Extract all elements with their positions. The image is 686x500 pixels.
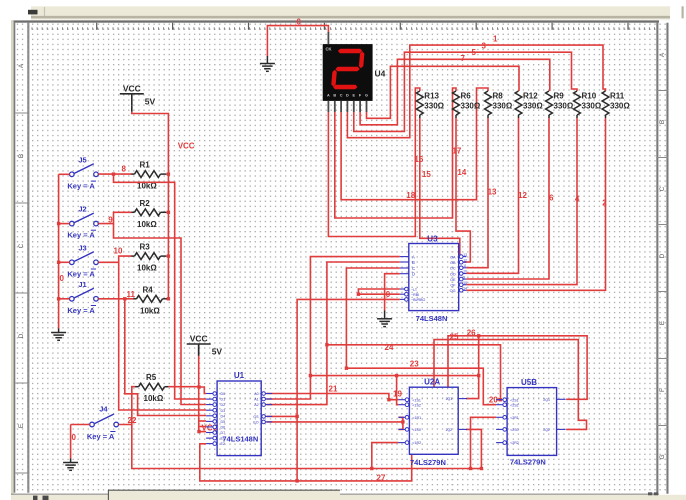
wire to J4 left: [71, 424, 90, 426]
wire net 11 J1 to R4: [99, 298, 134, 300]
svg-text:1Q2: 1Q2: [445, 428, 452, 432]
svg-text:R12: R12: [523, 92, 538, 101]
svg-text:D: D: [412, 272, 415, 277]
wire net 25 2Q2 loop: [434, 340, 587, 430]
svg-text:4: 4: [575, 195, 580, 204]
svg-text:6: 6: [549, 194, 554, 203]
svg-text:5: 5: [472, 48, 477, 57]
svg-text:U2A: U2A: [424, 377, 440, 386]
7-segment display U4: [323, 44, 373, 112]
svg-text:D3: D3: [221, 409, 226, 413]
wire segment D net 1 to R11: [347, 45, 605, 138]
svg-text:Key = A: Key = A: [87, 432, 115, 441]
svg-text:D: D: [18, 333, 25, 338]
svg-text:A2: A2: [254, 403, 258, 407]
wire net 27 U1 EI: [200, 444, 412, 481]
svg-text:74LS48N: 74LS48N: [416, 314, 448, 323]
wire switch ground rail: [58, 174, 60, 328]
svg-text:9: 9: [108, 216, 113, 225]
svg-text:13: 13: [488, 188, 497, 197]
wire R8 bottom to U3 OC net 13: [466, 118, 488, 268]
IC U2A 74LS279N SR latch: [398, 377, 467, 467]
svg-text:2Q1: 2Q1: [543, 398, 550, 402]
svg-text:A0: A0: [254, 392, 258, 396]
wire net 11 to U1 D4: [125, 299, 206, 416]
svg-text:U1: U1: [234, 371, 245, 380]
sheet left outer beige edge: [11, 20, 14, 499]
svg-text:R11: R11: [610, 92, 625, 101]
wire net to U2A 1R2: [372, 443, 399, 469]
wire R10 bottom to U3 OF net 4: [466, 118, 577, 285]
svg-text:D2: D2: [221, 403, 226, 407]
svg-text:0: 0: [60, 274, 65, 283]
VCC supply V2 5V: [187, 344, 211, 356]
ground for display common: [260, 64, 275, 72]
wire R6 bottom to U3 OB: [456, 118, 470, 262]
wire branch to U2A 1S2: [397, 376, 399, 405]
svg-text:10kΩ: 10kΩ: [140, 306, 160, 315]
svg-text:OE: OE: [450, 278, 456, 282]
svg-text:330Ω: 330Ω: [523, 102, 543, 111]
svg-text:G: G: [659, 454, 666, 459]
VCC supply V1 5V: [120, 94, 144, 106]
wire segment C to R8: [341, 88, 488, 200]
svg-text:GS: GS: [253, 415, 259, 419]
svg-text:9: 9: [463, 275, 465, 279]
IC U3 74LS48N BCD to 7-segment decoder: [400, 234, 467, 323]
svg-text:24: 24: [385, 343, 394, 352]
wire rail to J1: [59, 298, 70, 300]
svg-text:330Ω: 330Ω: [554, 102, 574, 111]
svg-text:J3: J3: [78, 244, 86, 253]
svg-text:10kΩ: 10kΩ: [144, 394, 164, 403]
svg-text:11: 11: [463, 264, 467, 268]
svg-text:22: 22: [128, 416, 137, 425]
wire net 26 right: [479, 336, 587, 400]
svg-text:<1R1: <1R1: [412, 416, 421, 420]
switch J4 Key=A: [87, 405, 119, 441]
wire U3 pin D to ground: [385, 274, 400, 311]
switch J2 Key=A: [67, 205, 98, 240]
wire VCC to U1 D0: [199, 387, 206, 394]
wire net 9 to U1 D2: [114, 224, 207, 405]
wire net 8 to U1 D1: [114, 174, 207, 399]
svg-text:R8: R8: [493, 92, 504, 101]
wire net 23 to U5B 2S2: [346, 368, 496, 405]
svg-text:<1S0: <1S0: [412, 428, 421, 432]
svg-text:15: 15: [463, 281, 467, 285]
svg-text:10kΩ: 10kΩ: [137, 264, 157, 273]
svg-text:Key = A: Key = A: [67, 269, 95, 278]
svg-text:10: 10: [114, 247, 123, 256]
svg-text:Key = A: Key = A: [67, 306, 95, 315]
svg-text:0: 0: [297, 18, 302, 27]
svg-text:D6: D6: [221, 426, 226, 430]
ground for switches J5 J2 J3 J1: [51, 333, 66, 341]
svg-text:U4: U4: [375, 69, 386, 79]
resistor R13 330: [416, 91, 423, 115]
resistor R2 10k: [135, 209, 161, 216]
svg-text:2: 2: [602, 199, 607, 208]
svg-text:F: F: [659, 388, 666, 392]
svg-text:74LS148N: 74LS148N: [222, 435, 258, 444]
wire U3 BI/RBO to GS and bottom: [297, 299, 400, 481]
wire U2A 1Q2 down: [466, 429, 481, 468]
svg-text:14: 14: [457, 168, 466, 177]
svg-text:3: 3: [482, 42, 487, 51]
IC U5B 74LS279N SR latch: [496, 378, 565, 467]
svg-text:8: 8: [122, 164, 127, 173]
bottom status bar: [11, 494, 659, 495]
wire display top pin net 0: [267, 26, 328, 57]
resistor R5 10k: [139, 383, 165, 390]
svg-text:R4: R4: [143, 285, 154, 294]
wire segment E net 3 to R10: [354, 52, 577, 131]
svg-text:5V: 5V: [145, 96, 156, 106]
svg-text:R6: R6: [461, 92, 472, 101]
svg-text:23: 23: [410, 360, 419, 369]
svg-text:<2S0: <2S0: [510, 428, 518, 432]
svg-text:OB: OB: [450, 261, 456, 265]
svg-text:R3: R3: [140, 243, 151, 252]
svg-text:CK: CK: [326, 47, 332, 52]
svg-text:VCC: VCC: [178, 142, 195, 151]
wire J4 ground stem: [70, 425, 72, 459]
svg-text:13: 13: [463, 253, 467, 257]
svg-text:E: E: [353, 93, 356, 97]
svg-text:D5: D5: [221, 420, 226, 424]
svg-text:330Ω: 330Ω: [461, 102, 481, 111]
svg-text:OG: OG: [450, 289, 456, 293]
svg-text:<2S2: <2S2: [510, 403, 518, 407]
svg-text:OA: OA: [450, 255, 456, 259]
svg-text:J2: J2: [78, 205, 86, 214]
resistor R10 330: [574, 91, 581, 115]
svg-text:<2R2: <2R2: [510, 441, 519, 445]
svg-text:18: 18: [406, 191, 415, 200]
sheet left border line: [14, 23, 16, 493]
right border letters: [659, 52, 666, 459]
wire R11 bottom to U3 OG net 2: [466, 118, 605, 290]
wire net 26 1Q1 to 2Q1: [448, 336, 479, 387]
svg-text:330Ω: 330Ω: [493, 102, 513, 111]
wire R13 bottom to U3 OA: [420, 118, 460, 255]
svg-text:74LS279N: 74LS279N: [410, 458, 446, 467]
top ruler ticks: [32, 27, 654, 30]
svg-text:D4: D4: [221, 414, 226, 418]
svg-text:J4: J4: [99, 405, 108, 414]
svg-text:A: A: [18, 63, 25, 68]
wire U2A 1Q1 riser: [466, 336, 479, 399]
svg-text:5V: 5V: [212, 347, 223, 357]
wire segment F net 5 to R9: [360, 59, 550, 125]
wire net U1 A1 up to U3 A: [267, 257, 400, 399]
svg-text:E: E: [18, 423, 25, 428]
wire segment B to R6: [335, 88, 456, 218]
wire branch y375 run: [310, 375, 478, 377]
switch J5 Key=A: [67, 156, 98, 191]
wire R5 right to VCC: [168, 386, 199, 388]
svg-text:C: C: [659, 186, 666, 191]
svg-text:19: 19: [393, 390, 402, 399]
svg-text:<1R2: <1R2: [412, 441, 421, 445]
svg-text:OF: OF: [450, 284, 456, 288]
svg-text:10: 10: [463, 270, 467, 274]
svg-text:R2: R2: [140, 199, 151, 208]
svg-text:1Q1: 1Q1: [445, 397, 452, 401]
sheet right border line: [656, 23, 658, 494]
wire segment A to R13: [328, 88, 419, 237]
svg-text:D: D: [346, 93, 349, 97]
svg-text:12: 12: [518, 191, 527, 200]
wire net 10 to U1 D3: [119, 262, 206, 410]
resistor R12 330: [515, 91, 522, 115]
svg-text:A: A: [412, 254, 415, 259]
svg-text:<2S1: <2S1: [510, 398, 518, 402]
wire rail to J3: [59, 261, 70, 263]
svg-text:21: 21: [329, 385, 338, 394]
wire net 22 bottom run: [132, 425, 482, 469]
wire net 8 J5 to R1: [99, 173, 132, 175]
wire net 21 U1 A0 to U2A 1S1: [267, 394, 399, 400]
svg-text:E: E: [659, 320, 666, 325]
switch J3 Key=A: [67, 244, 98, 279]
svg-text:VCC: VCC: [190, 334, 208, 344]
resistor R4 10k: [137, 295, 163, 302]
svg-text:1: 1: [493, 35, 498, 44]
ground for J4: [63, 463, 78, 471]
svg-text:C: C: [18, 243, 25, 248]
wire net 10 J3 to R3: [99, 256, 132, 262]
svg-text:J5: J5: [78, 156, 86, 165]
svg-text:A: A: [659, 52, 666, 57]
wire segment G net 7 to R12: [367, 66, 520, 118]
svg-text:R1: R1: [140, 161, 151, 170]
svg-text:14: 14: [463, 287, 467, 291]
svg-text:B: B: [18, 154, 25, 158]
title bar icon fragment: [28, 10, 38, 15]
svg-text:0: 0: [386, 290, 391, 299]
wire net 9 J2 to R2: [99, 212, 132, 223]
svg-text:D1: D1: [221, 398, 226, 402]
wire rail to J2: [59, 223, 70, 225]
svg-text:11: 11: [127, 290, 136, 299]
resistor R1 10k: [135, 171, 161, 178]
svg-text:R5: R5: [146, 373, 157, 382]
svg-text:D0: D0: [221, 392, 226, 396]
wire VCC2 stem: [198, 344, 200, 356]
svg-text:2Q2: 2Q2: [543, 428, 550, 432]
svg-text:<1S2: <1S2: [412, 403, 421, 407]
wire rail to J5: [59, 173, 70, 175]
wire U1 EO to U2A 1R1: [267, 417, 403, 422]
svg-text:25: 25: [450, 332, 459, 341]
wire VCC to U1 D6: [199, 426, 206, 428]
svg-text:D: D: [659, 253, 666, 258]
svg-text:Key = A: Key = A: [67, 181, 95, 190]
wire net 24 to U5B 2S1: [327, 345, 501, 400]
svg-text:26: 26: [467, 328, 476, 337]
svg-text:B: B: [412, 260, 415, 265]
wire VCC to U1 D5: [199, 420, 206, 422]
resistor R9 330: [546, 91, 553, 115]
wire U3 LT RBI tie: [358, 289, 399, 294]
wire R9 bottom to U3 OE net 6: [466, 118, 549, 279]
svg-text:B: B: [659, 120, 666, 124]
svg-text:330Ω: 330Ω: [610, 102, 630, 111]
svg-text:A: A: [327, 93, 330, 97]
svg-text:G: G: [365, 93, 368, 97]
left border letters: [18, 63, 25, 428]
svg-text:74LS279N: 74LS279N: [510, 457, 546, 466]
wire VCC1 to rail: [132, 112, 169, 300]
svg-text:Key = A: Key = A: [67, 231, 95, 240]
svg-text:<1S1: <1S1: [412, 398, 421, 402]
wire GS to U1: [267, 415, 298, 417]
svg-text:~BI/RBO: ~BI/RBO: [411, 298, 425, 302]
resistor R8 330: [485, 91, 492, 115]
svg-text:27: 27: [377, 474, 386, 483]
resistor R6 330: [453, 91, 460, 115]
wire net 22 J4 to R5: [119, 387, 135, 425]
svg-text:B: B: [333, 93, 336, 97]
svg-text:EO: EO: [253, 421, 258, 425]
sheet top edge line: [11, 20, 659, 22]
svg-text:7: 7: [461, 54, 466, 63]
svg-text:17: 17: [452, 146, 461, 155]
svg-text:U5B: U5B: [521, 378, 537, 387]
wire VCC to U1 D7: [199, 431, 206, 433]
svg-text:~RBI: ~RBI: [411, 293, 419, 297]
window top right edge: [682, 6, 684, 18]
svg-text:OD: OD: [450, 272, 456, 276]
svg-text:OC: OC: [450, 267, 456, 271]
switch J1 Key=A: [67, 280, 98, 315]
wire R12 bottom to U3 OD net 12: [466, 118, 518, 273]
svg-text:C: C: [340, 93, 343, 97]
svg-text:J1: J1: [78, 280, 86, 289]
svg-text:10kΩ: 10kΩ: [137, 220, 157, 229]
wire VCC2 rail to U1: [198, 356, 200, 432]
svg-text:12: 12: [463, 258, 467, 262]
svg-text:330Ω: 330Ω: [582, 102, 602, 111]
svg-text:C: C: [412, 266, 415, 271]
svg-text:U3: U3: [427, 234, 438, 243]
svg-text:<2R1: <2R1: [510, 416, 519, 420]
svg-text:~LT: ~LT: [411, 288, 418, 292]
resistor R11 330: [602, 91, 609, 115]
ground for U3 inputs: [377, 319, 392, 327]
wire to U2A pin4: [398, 422, 403, 430]
wire VCC1 stem: [131, 106, 133, 112]
wire U3 C down: [346, 268, 399, 368]
svg-text:330Ω: 330Ω: [424, 102, 444, 111]
window title bar: [31, 6, 670, 16]
IC U1 74LS148N priority encoder: [206, 371, 272, 456]
wire net 22 up to U5B 2R1: [471, 417, 497, 468]
svg-text:15: 15: [422, 170, 431, 179]
wire net U1 A2 up to U3 B: [267, 262, 400, 405]
svg-text:A1: A1: [254, 398, 258, 402]
svg-text:R13: R13: [424, 92, 439, 101]
svg-text:VCC: VCC: [123, 83, 141, 93]
resistor R3 10k: [135, 253, 161, 260]
sheet right outer border line: [666, 23, 668, 494]
svg-text:R10: R10: [582, 92, 597, 101]
sheet left inner border line: [27, 23, 29, 493]
svg-text:R9: R9: [554, 92, 565, 101]
svg-text:0: 0: [72, 433, 77, 442]
